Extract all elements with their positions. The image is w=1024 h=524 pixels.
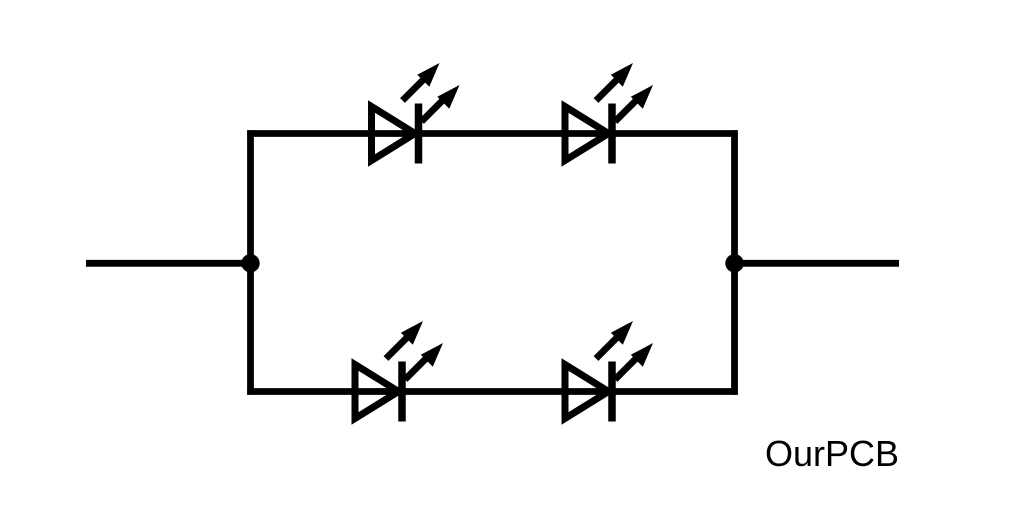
D1 cathode bar	[415, 104, 423, 164]
D2 light arrow 2	[615, 99, 638, 122]
wire: left branch vertical	[247, 130, 254, 394]
node: left junction	[241, 254, 259, 272]
D1 anode triangle	[372, 107, 416, 161]
D4 anode triangle	[565, 365, 609, 419]
LED D2 (top-right)	[565, 63, 653, 164]
D1 light arrow 2	[422, 99, 445, 122]
LED D3 (bottom-left)	[355, 321, 443, 422]
D3 anode triangle	[355, 365, 399, 419]
D3 light arrow 1	[386, 336, 409, 359]
OurPCB logo text	[765, 433, 899, 475]
node: right junction	[725, 254, 743, 272]
wire: left input lead	[86, 260, 251, 267]
wire: right branch vertical	[731, 130, 738, 394]
D3 light arrow 2	[405, 357, 428, 380]
D2 light arrow 1	[596, 78, 619, 101]
D2 anode triangle	[565, 107, 609, 161]
LED D1 (top-left)	[372, 63, 460, 164]
D1 light arrow 1	[403, 78, 426, 101]
D2 cathode bar	[608, 104, 616, 164]
wire: top branch horizontal	[247, 130, 737, 137]
wire: bottom branch horizontal	[247, 388, 737, 395]
D4 light arrow 2	[615, 357, 638, 380]
D3 cathode bar	[398, 362, 406, 422]
wire: right output lead	[735, 260, 900, 267]
D4 light arrow 1	[596, 336, 619, 359]
LED D4 (bottom-right)	[565, 321, 653, 422]
D4 cathode bar	[608, 362, 616, 422]
